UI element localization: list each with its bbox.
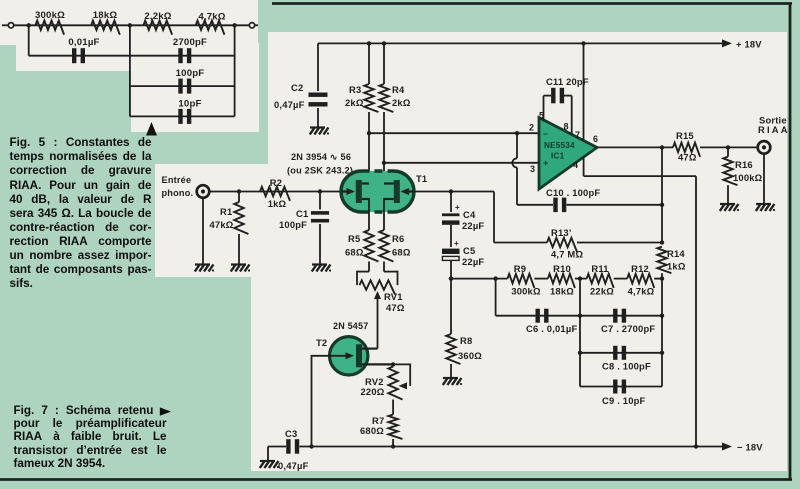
- phono input connector: [197, 185, 210, 198]
- svg-text:1kΩ: 1kΩ: [667, 261, 686, 272]
- svg-text:R12: R12: [631, 263, 649, 274]
- svg-text:4,7kΩ: 4,7kΩ: [198, 12, 225, 23]
- node C7 row right: [660, 314, 664, 318]
- svg-text:R10: R10: [553, 263, 571, 274]
- T2 gate arrow: [346, 352, 355, 359]
- ground below R1: [231, 263, 246, 265]
- resistor R8: [450, 279, 452, 334]
- node R10-R11: [578, 276, 582, 280]
- caption Fig.7 pointer arrowhead: [160, 407, 171, 415]
- potentiometer RV2: [388, 367, 402, 400]
- svg-text:R2: R2: [270, 177, 282, 188]
- svg-text:phono.: phono.: [162, 188, 194, 198]
- fig5 node C dot: [232, 23, 236, 27]
- capacitor C7: [613, 309, 617, 323]
- svg-text:2N 3954 ∿ 56: 2N 3954 ∿ 56: [291, 152, 351, 162]
- svg-text:18kΩ: 18kΩ: [550, 286, 574, 297]
- white paper region of main schematic: [155, 32, 787, 471]
- resistor R11: [587, 274, 614, 288]
- svg-text:100pF: 100pF: [176, 68, 205, 79]
- svg-text:C7 . 2700pF: C7 . 2700pF: [601, 323, 655, 334]
- fig5 resistor 4.7k: [196, 21, 225, 35]
- fig5 pointer arrowhead: [146, 122, 157, 136]
- svg-text:8: 8: [564, 122, 569, 132]
- capacitor C11: [544, 95, 552, 97]
- resistor R1: [238, 192, 240, 203]
- svg-text:C4: C4: [463, 209, 476, 220]
- RV1 wiper arrow: [374, 291, 381, 299]
- fig5 resistor 18k: [91, 21, 120, 35]
- wire R4 to op-amp pin3: [384, 162, 539, 164]
- svg-text:0,01µF: 0,01µF: [68, 37, 99, 48]
- C9 row wire: [580, 386, 662, 388]
- fig5 resistor 300k: [35, 21, 64, 35]
- RV2 to R7 wire: [392, 400, 394, 415]
- svg-text:0,47µF: 0,47µF: [274, 99, 305, 110]
- svg-text:22µF: 22µF: [462, 220, 484, 231]
- svg-text:10pF: 10pF: [178, 99, 201, 110]
- svg-text:T1: T1: [416, 173, 427, 184]
- transistor T1 body fill: [341, 171, 414, 212]
- T1 left gate bar: [356, 180, 362, 203]
- RV2 wiper bracket: [393, 363, 410, 365]
- svg-text:R5: R5: [348, 233, 360, 244]
- capacitor C5: [442, 249, 460, 254]
- output wire to jack: [700, 146, 759, 148]
- node C1 top: [318, 189, 322, 193]
- pin2 feedback drop wire: [516, 133, 518, 158]
- svg-text:+: +: [455, 203, 460, 212]
- node C7 row mid: [578, 314, 582, 318]
- svg-text:R15: R15: [676, 130, 694, 141]
- right ladder vertical wire: [661, 279, 663, 387]
- node C8 row right: [660, 351, 664, 355]
- +18V arrowhead: [722, 39, 732, 47]
- node pin7 on rail: [581, 41, 585, 45]
- node pin3 branch: [382, 161, 386, 165]
- svg-text:1kΩ: 1kΩ: [268, 198, 287, 209]
- node R16 top: [726, 145, 730, 149]
- input wire to T1 gate: [209, 191, 342, 193]
- T2 gate wire: [312, 355, 347, 357]
- svg-text:3: 3: [530, 164, 535, 174]
- mid ladder vertical wire: [579, 279, 581, 387]
- fig5 left terminal: [2, 24, 8, 26]
- svg-text:68Ω: 68Ω: [392, 247, 411, 258]
- caption Fig.5 text: [0, 0, 800, 1]
- figure frame border top: [272, 2, 792, 5]
- T1 right drain stub: [384, 182, 394, 184]
- fig5 capacitor 100pF: [178, 79, 182, 94]
- svg-text:47kΩ: 47kΩ: [210, 219, 234, 230]
- svg-text:360Ω: 360Ω: [458, 350, 482, 361]
- resistor R3: [368, 43, 370, 84]
- capacitor C4 wire top: [450, 192, 452, 213]
- ground below C3: [260, 460, 275, 462]
- output feedback drop: [661, 147, 663, 243]
- svg-text:R8: R8: [460, 335, 472, 346]
- node C6 branch: [493, 276, 497, 280]
- capacitor C1: [319, 192, 321, 210]
- C6/C7 row wire: [496, 315, 662, 317]
- pin 7 stub: [583, 43, 585, 141]
- svg-text:T2: T2: [316, 337, 327, 348]
- potentiometer RV1: [360, 280, 396, 294]
- svg-text:R16: R16: [735, 159, 753, 170]
- svg-text:R6: R6: [392, 233, 404, 244]
- fig5 left branch wire: [28, 25, 30, 55]
- resistor R12: [627, 274, 654, 288]
- svg-text:22µF: 22µF: [462, 256, 484, 267]
- svg-text:2,2kΩ: 2,2kΩ: [144, 11, 171, 22]
- capacitor C10: [517, 204, 553, 206]
- svg-text:–: –: [543, 129, 548, 139]
- pin 4 stub: [583, 157, 585, 176]
- fig5 node A dot: [27, 23, 31, 27]
- resistor R5: [364, 230, 378, 262]
- ground below C2: [310, 126, 325, 128]
- node feedback pin2: [515, 131, 519, 135]
- svg-text:C10 . 100pF: C10 . 100pF: [546, 187, 600, 198]
- capacitor C9: [613, 380, 617, 394]
- svg-text:4,7kΩ: 4,7kΩ: [628, 286, 655, 297]
- node R3 top: [367, 41, 371, 45]
- capacitor C4: [442, 213, 460, 216]
- svg-text:R1: R1: [220, 206, 232, 217]
- RV1 bracket wires: [357, 271, 369, 273]
- node R1 top: [237, 189, 241, 193]
- svg-text:5: 5: [539, 111, 544, 121]
- node pin2 branch: [367, 131, 371, 135]
- svg-text:300kΩ: 300kΩ: [511, 286, 541, 297]
- ground below R8: [443, 377, 458, 379]
- T1 left drain stub: [362, 182, 369, 184]
- capacitor C3: [286, 439, 290, 454]
- svg-text:0,47µF: 0,47µF: [278, 460, 309, 471]
- capacitor C2: [317, 43, 319, 91]
- T2 drain stub: [362, 348, 378, 350]
- node output branch: [660, 145, 664, 149]
- resistor R9: [508, 274, 535, 288]
- transistor T2 body: [330, 337, 368, 375]
- svg-text:RV1: RV1: [384, 291, 403, 302]
- C8 row wire: [580, 352, 662, 354]
- T1 right gate bar: [394, 180, 400, 203]
- resistor R7: [388, 415, 402, 439]
- node T2 gate on rail: [309, 444, 313, 448]
- svg-text:R11: R11: [591, 263, 608, 274]
- svg-text:IC1: IC1: [551, 152, 565, 161]
- svg-text:2700pF: 2700pF: [173, 37, 207, 48]
- svg-text:R9: R9: [514, 263, 526, 274]
- svg-text:C11 20pF: C11 20pF: [546, 76, 589, 87]
- fig5 wire 10pF row: [130, 115, 235, 117]
- resistor R14: [657, 247, 671, 274]
- fig5 middle branch wire: [129, 25, 131, 116]
- T2 gate bar: [356, 344, 362, 367]
- fig5 capacitor 0.01uF: [72, 48, 76, 63]
- figure frame border right: [789, 4, 792, 481]
- svg-text:C9 . 10pF: C9 . 10pF: [602, 395, 646, 406]
- resistor R6: [379, 230, 393, 262]
- node R13' right: [660, 240, 664, 244]
- svg-text:C5: C5: [463, 245, 475, 256]
- fig5 resistor 2.2k: [143, 21, 172, 35]
- node feedback left: [449, 276, 453, 280]
- svg-text:+: +: [543, 158, 548, 168]
- sortie RIAA connector: [758, 141, 771, 154]
- capacitor C8: [613, 346, 617, 360]
- svg-text:100kΩ: 100kΩ: [733, 172, 763, 183]
- T2 source stub: [362, 363, 393, 365]
- resistor R13': [494, 242, 547, 244]
- svg-text:2N 5457: 2N 5457: [333, 321, 368, 331]
- op-amp IC1 body: [539, 118, 597, 190]
- svg-text:2: 2: [529, 123, 534, 133]
- svg-text:R13’: R13’: [551, 227, 572, 238]
- T1 right gate arrow: [409, 190, 414, 192]
- node C10 right: [660, 203, 664, 207]
- fig5 right terminal: [255, 24, 258, 26]
- T1 right source stub: [384, 198, 394, 200]
- svg-text:(ou 2SK 243.2): (ou 2SK 243.2): [287, 166, 353, 176]
- ground below R16: [720, 203, 735, 205]
- node T2 source: [391, 362, 395, 366]
- fig5 right branch wire: [234, 25, 236, 116]
- ground below connector: [202, 197, 204, 264]
- svg-text:68Ω: 68Ω: [345, 247, 364, 258]
- transistor T1 outline arcs: [341, 171, 362, 212]
- fig5 capacitor 10pF: [178, 109, 182, 124]
- resistor R15: [673, 143, 700, 157]
- resistor R16: [727, 147, 729, 156]
- resistor R4: [383, 43, 385, 84]
- pin 8 stub: [571, 96, 573, 135]
- svg-text:R4: R4: [392, 84, 405, 95]
- white paper region of Fig.5 network: [0, 0, 258, 71]
- svg-text:680Ω: 680Ω: [360, 425, 384, 436]
- svg-text:R14: R14: [667, 248, 685, 259]
- node R12-R14: [660, 276, 664, 280]
- fig5 top wire: [14, 24, 250, 26]
- node R4 top: [382, 41, 386, 45]
- op-amp output wire: [596, 146, 673, 148]
- svg-text:18kΩ: 18kΩ: [93, 10, 118, 21]
- svg-text:RIAA: RIAA: [758, 124, 790, 135]
- sortie connector ground: [763, 153, 765, 204]
- node R7 on rail: [391, 444, 395, 448]
- svg-text:7: 7: [575, 130, 580, 140]
- svg-text:4,7 MΩ: 4,7 MΩ: [551, 249, 583, 260]
- svg-text:2kΩ: 2kΩ: [345, 97, 364, 108]
- svg-text:6: 6: [593, 134, 598, 144]
- svg-text:4: 4: [573, 160, 578, 170]
- svg-text:NE5534: NE5534: [544, 141, 575, 150]
- feedback line wire: [451, 278, 508, 280]
- figure frame border bottom: [0, 478, 792, 481]
- svg-text:C1: C1: [296, 208, 308, 219]
- svg-text:C2: C2: [291, 82, 303, 93]
- svg-text:C3: C3: [285, 428, 297, 439]
- T1 left gate arrow: [342, 190, 347, 192]
- svg-text:+: +: [454, 239, 459, 248]
- fig5 wire 2700pF row: [130, 55, 235, 57]
- -18V arrowhead: [722, 443, 732, 451]
- fig5 wire 100pF row: [130, 85, 235, 87]
- svg-text:2kΩ: 2kΩ: [392, 97, 411, 108]
- svg-text:Entrée: Entrée: [162, 175, 192, 185]
- ground below C1: [312, 263, 327, 265]
- svg-text:C8 . 100pF: C8 . 100pF: [602, 361, 651, 372]
- svg-text:47Ω: 47Ω: [678, 152, 697, 163]
- svg-text:300kΩ: 300kΩ: [35, 10, 65, 21]
- svg-text:C6 . 0,01µF: C6 . 0,01µF: [526, 323, 577, 334]
- node R8 top: [449, 276, 453, 280]
- C6 left branch wire: [495, 279, 497, 316]
- svg-text:+ 18V: + 18V: [736, 39, 762, 50]
- wire R3 to op-amp pin2: [369, 132, 539, 134]
- capacitor C6: [536, 309, 540, 323]
- fig5 capacitor 2700pF: [178, 48, 182, 63]
- node C4 branch: [449, 189, 453, 193]
- resistor R10: [548, 274, 575, 288]
- +18V supply rail: [318, 42, 723, 44]
- caption Fig.7 text: [0, 0, 800, 1]
- pin 5 stub: [543, 96, 545, 122]
- T1 left source stub: [362, 198, 369, 200]
- C3 left wire: [268, 446, 286, 448]
- resistor R2: [260, 187, 290, 201]
- svg-text:R3: R3: [349, 84, 361, 95]
- svg-text:22kΩ: 22kΩ: [590, 286, 614, 297]
- node -18V rail corner: [694, 444, 698, 448]
- pin4 supply wire: [584, 175, 696, 177]
- T1 right gate wire: [414, 191, 495, 193]
- svg-text:47Ω: 47Ω: [386, 302, 405, 313]
- -18V bottom rail: [300, 446, 724, 448]
- wire hop over pin3 line: [512, 158, 517, 167]
- node C8 row mid: [578, 351, 582, 355]
- svg-text:220Ω: 220Ω: [361, 386, 385, 397]
- svg-text:− 18V: − 18V: [737, 442, 763, 453]
- fig5 node B dot: [128, 23, 132, 27]
- svg-text:100pF: 100pF: [279, 219, 307, 230]
